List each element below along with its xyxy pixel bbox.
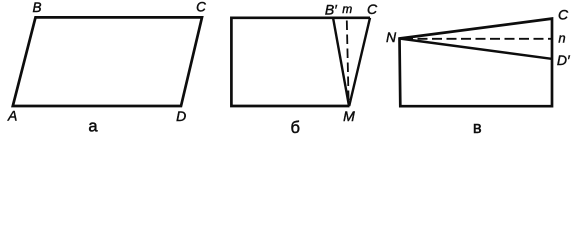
svg-text:D′: D′: [557, 52, 571, 68]
svg-text:n: n: [558, 31, 565, 46]
dashed segment Nn: [403, 38, 551, 40]
svg-text:D: D: [176, 108, 186, 124]
svg-text:C: C: [558, 7, 569, 23]
dashed segment mM: [347, 21, 349, 102]
parallelogram ABCD outline: [13, 17, 202, 106]
svg-text:а: а: [88, 118, 98, 136]
figure v outline: N-C top, right edge, bottom edge, left edge: [400, 19, 553, 107]
svg-text:в: в: [473, 119, 482, 137]
svg-text:B′: B′: [325, 2, 338, 18]
svg-text:m: m: [342, 2, 352, 16]
figure b rectangle: top, left, bottom edges: [231, 18, 370, 106]
svg-text:B: B: [32, 0, 41, 15]
segment ND': [400, 39, 552, 59]
svg-text:б: б: [290, 119, 299, 137]
segment CM: [349, 18, 370, 106]
svg-text:A: A: [7, 107, 17, 123]
segment B'M: [333, 18, 349, 107]
svg-text:N: N: [386, 29, 397, 45]
svg-text:M: M: [343, 108, 355, 124]
svg-text:C: C: [367, 1, 378, 17]
svg-text:C: C: [196, 0, 206, 14]
